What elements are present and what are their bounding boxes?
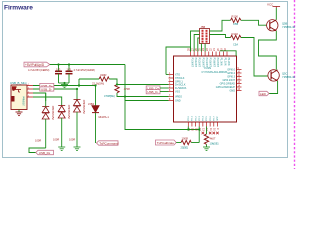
IC left pin stubs	[169, 75, 174, 101]
IC left pin numbers	[169, 73, 171, 101]
wire VCC to Q1 collector	[275, 8, 277, 20]
wire	[78, 79, 80, 86]
wire header to R100	[210, 20, 231, 31]
wire	[191, 142, 199, 144]
IC U1 CY7C63	[174, 56, 237, 122]
svg-text:C5A: C5A	[233, 43, 238, 47]
page limit dashed line	[294, 0, 296, 169]
svg-text:4k07: 4k07	[210, 137, 216, 141]
svg-text:Firmware: Firmware	[4, 5, 33, 12]
svg-text:R102: R102	[232, 32, 239, 36]
svg-text:P1.0/IN: P1.0/IN	[220, 58, 223, 66]
svg-text:P1.1/IN: P1.1/IN	[223, 58, 226, 66]
capacitor C13	[55, 71, 62, 73]
wire USB D+	[33, 85, 96, 87]
global label USB_D- near IC	[146, 90, 160, 94]
svg-text:P0.3/INT: P0.3/INT	[201, 58, 204, 68]
global label USB_Dx	[36, 150, 54, 154]
svg-text:103: 103	[67, 68, 72, 72]
resistor R102	[231, 35, 241, 39]
global label TxPCommand	[97, 141, 119, 145]
svg-text:100R: 100R	[35, 139, 41, 143]
wire header to IC pins	[191, 31, 200, 52]
IC right pin stubs	[237, 70, 242, 91]
wire bottom risers	[187, 127, 189, 130]
IC left pin names	[175, 73, 187, 102]
IC bottom pin numbers	[187, 128, 219, 131]
wire XTAL row	[117, 84, 169, 86]
wire header to R102	[210, 35, 231, 38]
svg-text:P0.0/INT: P0.0/INT	[190, 58, 193, 68]
svg-text:USBMini: USBMini	[23, 96, 26, 106]
svg-text:103: 103	[56, 68, 61, 72]
ground	[61, 83, 68, 88]
svg-text:P1.2/IN: P1.2/IN	[227, 58, 230, 66]
svg-text:430R: 430R	[100, 73, 106, 77]
svg-text:R100: R100	[232, 15, 239, 19]
global label USB_D+ near IC	[146, 86, 160, 90]
svg-text:VPP: VPP	[217, 116, 219, 121]
svg-text:4.7uF/25V(CERM): 4.7uF/25V(CERM)	[74, 68, 95, 72]
svg-text:P0.2/INT: P0.2/INT	[198, 58, 201, 68]
pins	[27, 86, 33, 98]
svg-text:P2.1: P2.1	[192, 116, 194, 121]
svg-text:P2.3: P2.3	[199, 116, 201, 121]
IC top pin numbers	[188, 48, 228, 51]
global label TxPCalibrate	[156, 140, 177, 145]
node junction	[116, 83, 118, 85]
svg-text:10k[5E]: 10k[5E]	[210, 142, 219, 146]
svg-text:P2.6: P2.6	[210, 116, 212, 121]
svg-text:100R: 100R	[53, 138, 59, 142]
IC bottom pin names	[188, 116, 219, 121]
wire above IC	[220, 51, 236, 56]
zener D1	[42, 107, 49, 120]
node junction LED branch	[78, 84, 80, 86]
svg-text:3V6ZENER: 3V6ZENER	[82, 100, 86, 114]
svg-text:P0.1/INT: P0.1/INT	[194, 58, 197, 68]
resistor R vertical 47k	[115, 85, 119, 93]
svg-text:GND: GND	[175, 99, 181, 102]
wire to diode col 3	[76, 89, 78, 101]
wire	[125, 97, 169, 101]
IC right pin numbers	[238, 68, 241, 91]
svg-text:P2.5: P2.5	[206, 116, 208, 121]
svg-text:Y25B50-40: Y25B50-40	[282, 25, 296, 29]
resistor R pullup horizontal	[99, 77, 109, 81]
wire R102 to Q2	[241, 38, 268, 77]
ground	[203, 147, 210, 151]
wire cap ground bus	[59, 82, 70, 84]
wire to diode col 1	[33, 93, 46, 101]
svg-text:VSS: VSS	[175, 90, 180, 93]
svg-text:Q5B: Q5B	[282, 22, 287, 26]
wire	[109, 79, 117, 85]
svg-text:LED: LED	[260, 92, 267, 96]
svg-text:100R: 100R	[69, 138, 75, 142]
node junction	[76, 88, 78, 90]
resistor R 100R bottom	[181, 140, 191, 144]
capacitor C15	[66, 71, 73, 73]
IC bottom pin stubs	[188, 122, 217, 127]
global label USB_D+	[40, 83, 54, 87]
svg-text:VCC: VCC	[267, 3, 274, 7]
svg-text:4.7uF/25V(CERM): 4.7uF/25V(CERM)	[28, 68, 49, 72]
svg-text:USB_Dx: USB_Dx	[39, 151, 51, 155]
svg-text:Q5C: Q5C	[282, 72, 287, 76]
resistor R vertical 10k	[206, 127, 208, 135]
ground	[74, 147, 81, 151]
wire USB D-	[33, 88, 77, 90]
wire main vertical	[125, 65, 199, 130]
global label +5V pullup	[24, 62, 50, 67]
USB connector J1	[11, 85, 27, 110]
svg-text:22.1k[5%]: 22.1k[5%]	[92, 82, 104, 86]
svg-text:3V6ZENER: 3V6ZENER	[51, 106, 55, 120]
svg-text:J5B: J5B	[201, 25, 206, 29]
zener D3	[74, 100, 81, 113]
svg-text:MiniPA-1: MiniPA-1	[99, 115, 110, 119]
wire to bottom label	[29, 148, 46, 153]
svg-text:P2.7: P2.7	[214, 116, 216, 121]
wire	[160, 91, 169, 93]
global label LED0	[259, 91, 269, 95]
svg-text:USB_D-: USB_D-	[41, 87, 52, 91]
wire top pin1 loop	[166, 47, 191, 75]
svg-text:3V6ZENER: 3V6ZENER	[67, 105, 71, 119]
svg-text:4708: 4708	[124, 87, 130, 91]
global label USB_D-	[40, 87, 54, 91]
svg-text:USB_D-: USB_D-	[147, 90, 158, 94]
zener D2	[58, 106, 65, 119]
wire to diode col 2	[33, 97, 62, 106]
node junction C13	[57, 63, 59, 65]
node junction C15	[68, 63, 70, 65]
resistor R100	[231, 18, 241, 22]
sheet frame	[3, 2, 288, 158]
svg-text:TxPCommand: TxPCommand	[99, 141, 119, 145]
svg-text:P0.5/INT: P0.5/INT	[209, 58, 212, 68]
wire +5V rail	[50, 64, 125, 66]
svg-text:P0.4/INT: P0.4/INT	[205, 58, 208, 68]
svg-text:100R: 100R	[182, 137, 188, 141]
transistor Q2	[268, 70, 279, 81]
svg-text:L5B4: L5B4	[88, 102, 95, 106]
IC bottom no-connect marks	[202, 132, 219, 135]
wire	[117, 93, 169, 97]
wire Q1 emitter to Q2 collector	[259, 31, 277, 70]
node junction	[124, 95, 126, 97]
svg-text:25[5E]: 25[5E]	[181, 146, 189, 150]
wire Q2 emitter to label	[269, 81, 278, 94]
svg-text:Y25B50-40: Y25B50-40	[282, 75, 296, 79]
ground under USB	[18, 110, 20, 113]
svg-text:CY7C63N-A61-4BFMX: CY7C63N-A61-4BFMX	[202, 71, 228, 74]
transistor Q1	[267, 20, 278, 31]
svg-text:P2.0: P2.0	[188, 116, 190, 121]
svg-text:GND: GND	[229, 89, 235, 92]
IC right pin names	[216, 68, 236, 92]
svg-text:4T08[5E]: 4T08[5E]	[104, 94, 115, 98]
wire	[79, 78, 99, 80]
svg-text:P0.7/INT: P0.7/INT	[216, 58, 219, 68]
IC top pin names	[190, 58, 230, 68]
svg-text:+5V/PullUp/D: +5V/PullUp/D	[25, 63, 45, 67]
svg-text:VREG: VREG	[175, 95, 182, 98]
node junction	[78, 84, 80, 86]
ground	[58, 147, 65, 151]
svg-text:P2.4: P2.4	[203, 116, 205, 121]
svg-text:TxPCalibrate: TxPCalibrate	[157, 141, 175, 145]
IC top pin stubs	[191, 52, 228, 57]
svg-text:P2.2: P2.2	[195, 116, 197, 121]
wire	[176, 142, 181, 144]
wire LED feed	[95, 86, 97, 106]
wire R100 to Q1	[241, 20, 267, 25]
header J2	[200, 29, 210, 44]
svg-text:U5B: U5B	[233, 22, 238, 26]
svg-text:P0.6/INT: P0.6/INT	[212, 58, 215, 68]
wire	[160, 87, 169, 89]
wire LED to label	[95, 113, 97, 143]
LED D4	[92, 106, 99, 112]
node junction	[63, 82, 65, 84]
